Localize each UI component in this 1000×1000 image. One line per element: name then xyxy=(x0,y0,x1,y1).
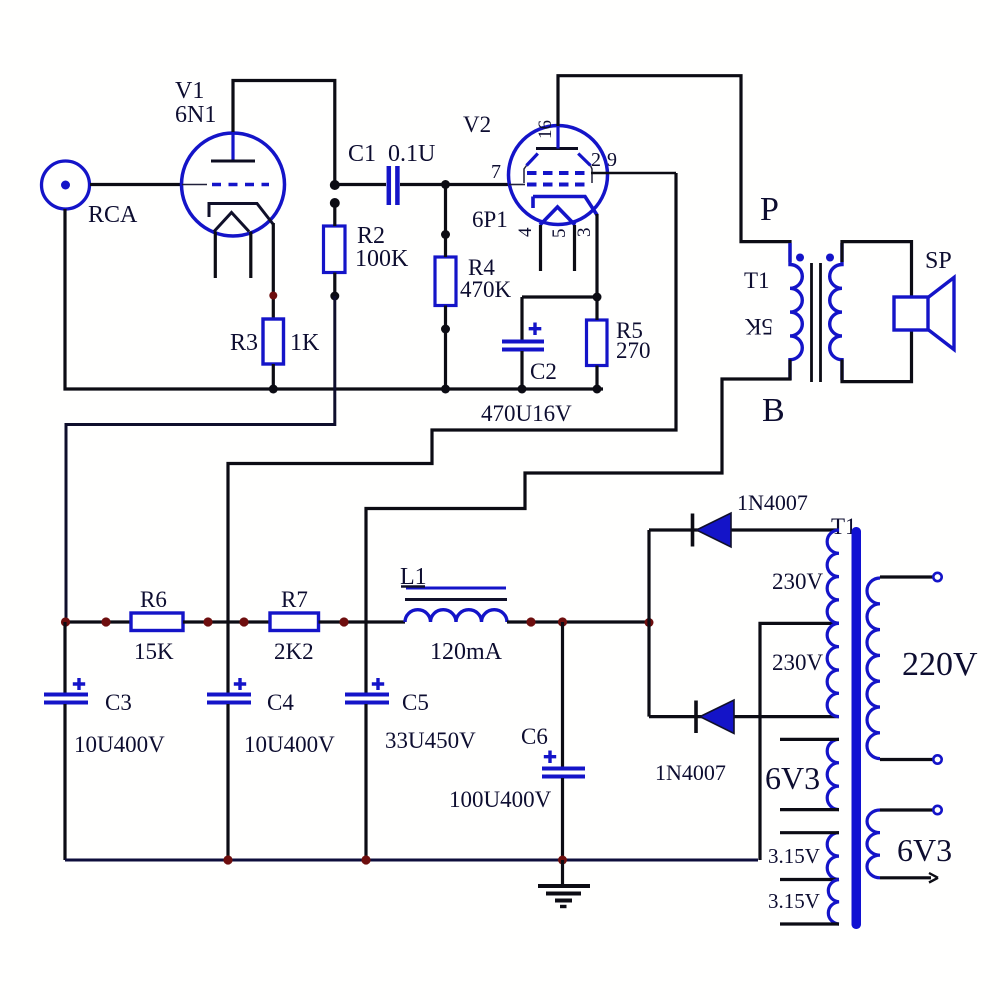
tube V2 envelope xyxy=(509,126,608,225)
R4 leads xyxy=(444,185,447,389)
6V3 right bottom lead xyxy=(880,876,931,879)
T1 power 3.15V winding lower xyxy=(828,880,839,925)
V2 beam electrode outline xyxy=(524,166,592,184)
svg-text:C4: C4 xyxy=(267,690,294,715)
V2 cathode xyxy=(533,197,597,216)
svg-text:5: 5 xyxy=(549,229,570,239)
capacitor C2 xyxy=(502,297,544,389)
220V top lead xyxy=(880,575,933,578)
V1 heater xyxy=(214,213,249,232)
wire C1 node xyxy=(335,183,386,186)
6V3 right top terminal xyxy=(933,806,941,814)
220V bottom lead xyxy=(880,758,933,761)
wire V2 plate to T1 primary P xyxy=(558,76,790,262)
wire upper diode branch xyxy=(649,528,839,531)
3.15V lower bottom lead xyxy=(780,922,839,925)
svg-text:RCA: RCA xyxy=(88,202,138,228)
svg-text:6P1: 6P1 xyxy=(472,207,508,232)
resistor R4 xyxy=(435,257,456,306)
T1 output core xyxy=(812,263,821,382)
svg-text:6V3: 6V3 xyxy=(897,832,952,868)
svg-text:270: 270 xyxy=(616,338,651,363)
svg-text:C5: C5 xyxy=(402,690,429,715)
svg-text:3: 3 xyxy=(574,228,595,238)
junction R4 top node xyxy=(441,180,450,189)
V1 grid dashes xyxy=(212,183,269,187)
V2 beam plate left xyxy=(527,154,538,166)
V1 heater pin right xyxy=(249,232,252,279)
T1 power 6V3 winding right xyxy=(867,810,880,878)
wire bottom ground rail xyxy=(65,859,758,862)
wire diode cathode bus xyxy=(647,530,650,717)
junction C4 bottom xyxy=(223,855,232,864)
3.15V upper top lead xyxy=(780,831,839,834)
junction R2 top xyxy=(330,198,340,208)
V1 grid entry xyxy=(182,184,207,186)
junction V1 cathode/R3 xyxy=(269,292,277,300)
svg-text:SP: SP xyxy=(925,248,952,274)
T1 power HV winding 230V upper xyxy=(827,530,839,623)
wire R6 to R7 xyxy=(183,620,270,623)
wire T1 primary bottom B staircase to C5 node xyxy=(366,360,790,623)
junction R6 right xyxy=(203,617,212,626)
svg-text:3.15V: 3.15V xyxy=(768,889,820,913)
svg-text:230V: 230V xyxy=(772,650,824,675)
V2 beam plate right xyxy=(578,154,590,166)
svg-text:220V: 220V xyxy=(902,646,978,683)
V2 grid entry xyxy=(509,184,525,186)
junction R4 ground xyxy=(441,385,450,394)
T1 output polarity dot primary xyxy=(796,254,804,262)
capacitor C5 xyxy=(345,622,389,860)
junction C6 top xyxy=(558,617,567,626)
junction rail left corner xyxy=(61,617,70,626)
wire V2 cathode to C2/R5 node xyxy=(595,214,598,297)
junction diode bus B+ xyxy=(645,618,654,627)
L1 core bar blue xyxy=(406,587,506,590)
svg-text:4: 4 xyxy=(515,227,536,237)
3.15V mid lead xyxy=(780,878,839,881)
wire T1 secondary top to speaker xyxy=(842,242,912,297)
wire lower diode branch xyxy=(649,715,839,718)
svg-text:P: P xyxy=(760,191,779,228)
junction R7 right xyxy=(339,617,348,626)
svg-text:V2: V2 xyxy=(463,112,491,137)
svg-text:470U16V: 470U16V xyxy=(481,401,572,426)
tube V1 envelope xyxy=(182,133,285,236)
svg-text:C3: C3 xyxy=(105,690,132,715)
V1 plate lead xyxy=(231,132,234,161)
svg-text:33U450V: 33U450V xyxy=(385,728,476,753)
junction R3 ground xyxy=(269,385,278,394)
svg-text:10U400V: 10U400V xyxy=(74,732,165,757)
svg-text:R3: R3 xyxy=(230,330,258,356)
V2 heater pin right xyxy=(573,225,576,271)
junction R7 left xyxy=(239,617,248,626)
junction C6 bottom xyxy=(558,856,567,865)
wire C1 to V2 grid xyxy=(400,183,509,186)
6V3 right top lead xyxy=(880,808,933,811)
resistor R7 xyxy=(270,613,319,631)
svg-text:1N4007: 1N4007 xyxy=(655,760,726,785)
wire C2 R5 node xyxy=(522,295,597,298)
wire L1 to diode bus xyxy=(507,620,649,623)
svg-text:16: 16 xyxy=(535,120,556,139)
220V bottom terminal xyxy=(933,755,941,763)
T1 output polarity dot secondary xyxy=(826,254,834,262)
svg-text:15K: 15K xyxy=(134,639,174,664)
wire HV center tap to ground xyxy=(760,623,839,860)
T1 power HV winding 230V lower xyxy=(827,623,839,716)
V2 heater xyxy=(540,207,575,225)
junction R2 bottom xyxy=(330,292,339,301)
resistor R2 xyxy=(324,226,346,273)
wire RCA shield to top ground bus xyxy=(65,209,603,389)
svg-text:100U400V: 100U400V xyxy=(449,787,552,812)
R2 leads xyxy=(333,203,336,296)
junction R4 upper xyxy=(441,230,450,239)
svg-text:5K: 5K xyxy=(745,314,774,339)
T1 power 6V3 winding left xyxy=(827,739,839,809)
junction R5 ground xyxy=(593,385,602,394)
wire RCA to V1 grid xyxy=(90,183,182,186)
svg-text:C2: C2 xyxy=(530,359,557,384)
junction C1 left xyxy=(330,180,340,190)
V2 plate bar xyxy=(536,147,578,150)
svg-text:C1: C1 xyxy=(348,141,376,167)
svg-text:3.15V: 3.15V xyxy=(768,844,820,868)
svg-text:1N4007: 1N4007 xyxy=(737,490,808,515)
wire V1 cathode to R3 xyxy=(272,223,275,319)
T1 power 3.15V winding upper xyxy=(827,833,839,880)
220V top terminal xyxy=(933,573,941,581)
L1 core bar dark xyxy=(405,598,507,601)
svg-text:R6: R6 xyxy=(140,587,167,612)
svg-text:T1: T1 xyxy=(744,268,770,293)
wire V2 screen out xyxy=(591,172,676,175)
V2 plate lead xyxy=(556,126,559,149)
junction rail left xyxy=(101,617,110,626)
capacitor C4 xyxy=(207,622,251,860)
svg-text:1K: 1K xyxy=(290,330,320,356)
capacitor C6 xyxy=(542,622,585,860)
svg-text:6V3: 6V3 xyxy=(765,760,820,796)
wire screen staircase to C4 node xyxy=(228,173,676,622)
svg-text:0.1U: 0.1U xyxy=(388,141,435,167)
svg-text:R7: R7 xyxy=(281,587,308,612)
svg-text:V1: V1 xyxy=(175,78,204,104)
6V3 left top lead xyxy=(780,738,839,741)
V1 heater pin left xyxy=(214,232,217,279)
ground symbol xyxy=(538,860,590,907)
wire V1 plate loop to C1 node xyxy=(233,81,335,186)
svg-text:B: B xyxy=(762,392,785,429)
svg-text:230V: 230V xyxy=(772,569,824,594)
junction R4 lower xyxy=(441,325,450,334)
V2 screen grid dashes xyxy=(527,171,590,175)
diode D2 1N4007 xyxy=(696,700,734,734)
L1 label underline xyxy=(401,585,425,587)
resistor R5 xyxy=(587,320,608,366)
diode D1 1N4007 xyxy=(693,513,732,547)
transformer T1 power core bar xyxy=(852,527,862,929)
svg-text:2: 2 xyxy=(591,149,601,171)
svg-text:100K: 100K xyxy=(355,246,409,272)
junction V2 cathode node xyxy=(593,293,602,302)
V2 heater pin left xyxy=(539,225,542,271)
capacitor C1 xyxy=(389,166,398,205)
T1 power 220V winding right xyxy=(867,578,880,759)
inductor L1 choke xyxy=(405,610,507,622)
transformer T1 output secondary winding xyxy=(830,243,842,380)
svg-text:2K2: 2K2 xyxy=(274,639,314,664)
wire T1 secondary bottom to speaker xyxy=(842,331,912,382)
6V3 left bottom lead xyxy=(780,808,839,811)
svg-text:6N1: 6N1 xyxy=(175,102,216,128)
resistor R3 xyxy=(263,319,284,364)
C3 polarity plus xyxy=(73,678,85,690)
C4 polarity plus xyxy=(234,678,246,690)
V2 control grid dashes xyxy=(527,183,590,187)
wire R7 to L1 xyxy=(319,620,406,623)
R5 leads xyxy=(595,297,598,389)
svg-text:C6: C6 xyxy=(521,724,548,749)
C2 polarity plus xyxy=(529,323,542,336)
transformer T1 output primary winding xyxy=(790,243,802,380)
svg-text:7: 7 xyxy=(491,161,501,183)
speaker SP xyxy=(894,278,954,350)
svg-text:470K: 470K xyxy=(460,277,512,302)
capacitor C3 xyxy=(44,622,88,860)
C6 polarity plus xyxy=(544,751,556,764)
6V3 right bottom terminal arrow xyxy=(929,873,938,883)
V1 plate bar xyxy=(211,160,255,163)
connector RCA input jack xyxy=(42,161,90,209)
svg-text:9: 9 xyxy=(607,149,617,171)
junction C5 bottom xyxy=(361,855,370,864)
svg-text:120mA: 120mA xyxy=(430,639,503,665)
wire B+ rail left segment xyxy=(65,620,131,623)
V1 cathode xyxy=(209,204,273,225)
C5 polarity plus xyxy=(372,678,384,690)
wire R2 bottom staircase to C3 node xyxy=(66,296,335,622)
svg-text:10U400V: 10U400V xyxy=(244,732,335,757)
resistor R6 xyxy=(131,613,183,631)
wire R3 to ground bus xyxy=(272,364,275,389)
junction L1 right xyxy=(526,617,535,626)
junction C2 ground xyxy=(518,385,527,394)
